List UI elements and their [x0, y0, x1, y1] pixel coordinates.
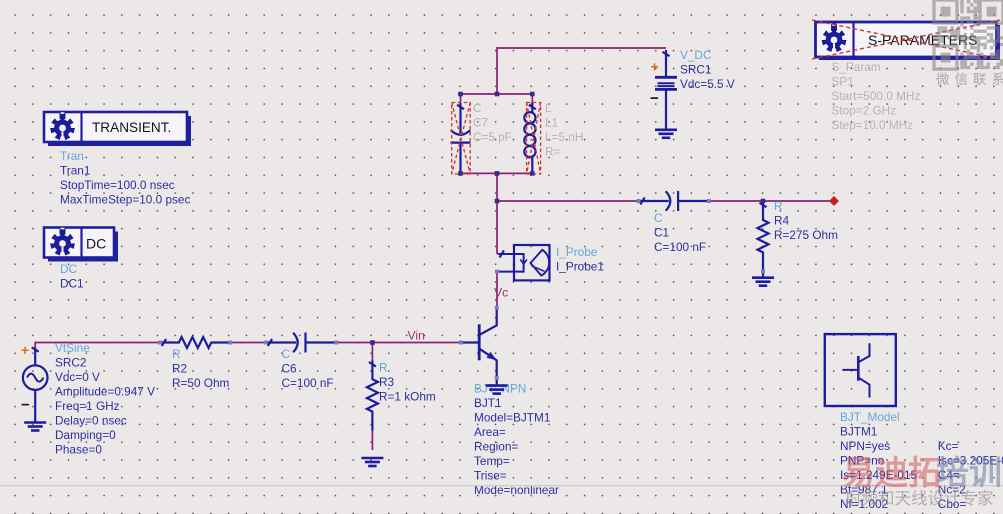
svg-text:Phase=0: Phase=0 [55, 443, 102, 457]
svg-text:L1: L1 [545, 116, 558, 130]
deactivation X over L1 [527, 103, 541, 175]
svg-text:BJT1: BJT1 [474, 396, 502, 410]
capacitor C6 [266, 333, 336, 353]
svg-text:C=5 pF: C=5 pF [473, 130, 512, 144]
svg-text:+: + [21, 342, 29, 358]
svg-text:Stop=2 GHz: Stop=2 GHz [832, 104, 897, 118]
pin R2.1 [158, 341, 162, 345]
inductor L1 (deactivated) [524, 103, 535, 173]
pin BJT1 collector [495, 306, 499, 310]
svg-text:R: R [774, 199, 783, 213]
svg-text:C1: C1 [654, 226, 669, 240]
resistor R3 [367, 360, 378, 430]
svg-text:R: R [172, 347, 181, 361]
svg-text:Area=: Area= [474, 425, 506, 439]
DC controller box [44, 227, 118, 261]
junction L1 bottom corner [530, 171, 535, 176]
ground (SRC2) [24, 423, 46, 431]
wire: R3 bottom to ground [371, 431, 373, 450]
svg-text:BJTM1: BJTM1 [840, 425, 877, 439]
svg-text:Temp=: Temp= [474, 454, 510, 468]
BJT_Model box [825, 334, 896, 406]
output node red diamond [829, 196, 839, 206]
svg-text:Freq=1 GHz: Freq=1 GHz [55, 399, 120, 413]
pin I_Probe1.2 [495, 270, 499, 274]
ground (SRC1) [655, 130, 677, 138]
svg-text:Start=500.0 MHz: Start=500.0 MHz [832, 89, 921, 103]
wire: node A down to probe top pin [496, 201, 498, 254]
svg-text:C: C [473, 101, 482, 115]
svg-text:R=50 Ohm: R=50 Ohm [172, 376, 230, 390]
wire: tank bottom horizontal [461, 172, 533, 174]
deactivation X over S-PARAMETERS [812, 20, 1000, 59]
junction node R4 [761, 199, 766, 204]
svg-text:Model=BJTM1: Model=BJTM1 [474, 411, 550, 425]
svg-text:SP1: SP1 [832, 75, 854, 89]
QR watermark [934, 0, 1003, 69]
svg-text:Vdc=5.5 V: Vdc=5.5 V [680, 77, 735, 91]
wire: tank top horizontal [461, 93, 533, 95]
S-PARAMETERS controller box (deactivated) [816, 22, 1001, 60]
svg-text:C=100 nF: C=100 nF [654, 240, 706, 254]
junction L1 top corner [530, 92, 535, 97]
svg-text:V_DC: V_DC [680, 48, 712, 62]
capacitor C1 [639, 191, 709, 211]
svg-text:Vdc=0 V: Vdc=0 V [55, 370, 100, 384]
ground (R3) [361, 458, 383, 466]
pin BJT1 base [459, 341, 463, 345]
wire: VtSine to R2 [35, 343, 160, 348]
svg-text:C7: C7 [473, 116, 488, 130]
svg-text:DC: DC [60, 262, 78, 276]
svg-text:微信联系: 微信联系 [936, 72, 1003, 87]
svg-text:Amplitude=0.947 V: Amplitude=0.947 V [55, 385, 155, 399]
pin BJT1 emitter [495, 376, 499, 380]
ground (R4) [752, 278, 774, 286]
TRANSIENT controller box [44, 112, 191, 146]
svg-text:BJT_Model: BJT_Model [840, 410, 900, 424]
svg-text:I_Probe1: I_Probe1 [556, 260, 604, 274]
ground (BJT emitter) [496, 378, 498, 386]
pin R4.2 [761, 269, 765, 273]
wire: R2 to C6 [230, 342, 266, 344]
svg-text:Damping=0: Damping=0 [55, 428, 116, 442]
svg-text:C: C [654, 211, 663, 225]
wire: C7 top stub [460, 94, 462, 103]
svg-text:易迪拓: 易迪拓 [842, 454, 941, 491]
svg-text:R=: R= [545, 145, 561, 159]
wire: R3 junction stub down [371, 343, 373, 361]
vtsine source SRC2 [23, 348, 48, 423]
junction tank-bottom node [495, 171, 500, 176]
svg-text:−: − [21, 397, 30, 414]
svg-text:L=5 nH: L=5 nH [545, 130, 583, 144]
svg-text:Kc=: Kc= [938, 439, 959, 453]
svg-text:R: R [379, 361, 388, 375]
svg-text:C: C [282, 347, 291, 361]
junction tank-top node [495, 92, 500, 97]
junction node Vin/R3 [370, 340, 375, 345]
junction node A (collector rail) [495, 199, 500, 204]
svg-text:NPN=yes: NPN=yes [840, 439, 890, 453]
svg-text:Tran1: Tran1 [60, 164, 90, 178]
junction C7 top corner [458, 92, 463, 97]
svg-text:DC: DC [86, 236, 106, 252]
svg-text:R=1 kOhm: R=1 kOhm [379, 390, 436, 404]
svg-text:Vc: Vc [494, 286, 508, 300]
transistor BJT1 [461, 308, 497, 378]
svg-text:Delay=0 nsec: Delay=0 nsec [55, 414, 127, 428]
svg-text:R=275 Ohm: R=275 Ohm [774, 228, 838, 242]
svg-text:Vin: Vin [408, 329, 425, 343]
wire: top rail from collector column to V_DC [497, 48, 666, 94]
wire: C6 to R3 junction to BJT base [336, 342, 461, 344]
pin C6.2 [334, 341, 338, 345]
svg-text:R2: R2 [172, 362, 187, 376]
resistor R4 [758, 201, 769, 271]
svg-text:−: − [650, 90, 659, 107]
svg-text:R4: R4 [774, 214, 790, 228]
svg-text:I_Probe: I_Probe [556, 245, 598, 259]
wire: L1 top stub [531, 94, 533, 103]
resistor R2 [160, 337, 230, 348]
wire: node A to C1 [497, 200, 639, 202]
capacitor C7 (deactivated) [451, 103, 471, 173]
svg-text:DC1: DC1 [60, 277, 84, 291]
wire: C7 bottom stub [460, 172, 462, 174]
pin C1.2 [707, 199, 711, 203]
probe I_Probe1 [497, 245, 549, 280]
pin C6.1 [264, 341, 268, 345]
svg-text:StopTime=100.0 nsec: StopTime=100.0 nsec [60, 178, 175, 192]
svg-text:SRC1: SRC1 [680, 63, 711, 77]
svg-text:VtSine: VtSine [55, 341, 90, 355]
svg-text:Mode=nonlinear: Mode=nonlinear [474, 483, 559, 497]
svg-text:SRC2: SRC2 [55, 356, 86, 370]
pin R2.2 [228, 341, 232, 345]
svg-text:TRANSIENT.: TRANSIENT. [92, 120, 171, 135]
svg-text:Step=10.0 MHz: Step=10.0 MHz [832, 118, 914, 132]
svg-text:Region=: Region= [474, 440, 518, 454]
wire: probe bottom pin to BJT collector [496, 272, 498, 308]
wire: C1 to R4 junction to output diamond [709, 200, 834, 202]
junction C7 bottom corner [458, 171, 463, 176]
svg-text:Trise=: Trise= [474, 469, 507, 483]
svg-text:C6: C6 [282, 362, 298, 376]
svg-text:MaxTimeStep=10.0 psec: MaxTimeStep=10.0 psec [60, 193, 190, 207]
svg-text:C=100 nF: C=100 nF [282, 376, 334, 390]
V_DC source SRC1 [655, 50, 677, 130]
svg-text:射频和天线设计专家: 射频和天线设计专家 [845, 489, 994, 508]
svg-text:S_Param: S_Param [832, 60, 881, 74]
wire: tank bottom to node A [496, 173, 498, 201]
svg-text:Tran: Tran [60, 149, 84, 163]
deactivation X over C7 [452, 103, 471, 175]
svg-text:+: + [651, 59, 659, 75]
svg-text:L: L [545, 101, 552, 115]
svg-text:R3: R3 [379, 375, 395, 389]
pin C1.1 [637, 199, 641, 203]
svg-text:培训: 培训 [936, 454, 1002, 491]
